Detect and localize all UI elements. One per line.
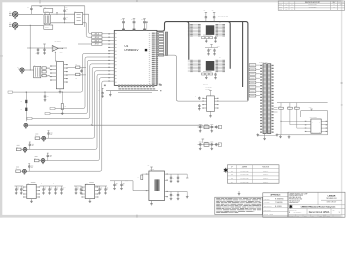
U1 right outer ladder wires (157, 33, 160, 35)
svg-text:C: C (53, 183, 54, 185)
U1 inner pin number specks right (149, 32, 150, 34)
U9 left stubs (188, 59, 190, 61)
U1 ground bus (106, 90, 158, 92)
J6 ground (42, 161, 44, 164)
svg-text:www.linear.com: www.linear.com (289, 202, 298, 204)
cap rail CC (74, 185, 82, 187)
J4 resistor (35, 137, 40, 140)
resistor R9 (61, 92, 63, 103)
U4 out wire to bus (219, 100, 248, 102)
sheet border top band (0, 0, 343, 2)
mid cap B (214, 49, 216, 51)
svg-text:+3V: +3V (147, 165, 149, 167)
capacitor CA1 (20, 186, 22, 188)
rc row end box (218, 125, 221, 128)
amplifier U2 (56, 62, 63, 89)
svg-text:FILE: FILE (297, 215, 299, 217)
wire FL1 to AIN+ label (83, 13, 89, 15)
U8 left stubs (188, 24, 190, 26)
svg-text:U7: U7 (86, 182, 88, 184)
title fields (306, 208, 308, 214)
bus vertical to U9 (187, 22, 189, 60)
title block main box (288, 192, 345, 217)
svg-text:M. JONES: M. JONES (275, 206, 282, 208)
svg-text:+3.3V: +3.3V (217, 46, 220, 48)
J2 ground (14, 27, 16, 30)
net label AIN-A (92, 36, 102, 39)
svg-text:SIZE DWG NO: SIZE DWG NO (289, 210, 297, 212)
mid cap rail (205, 47, 218, 49)
eeprom ground B (288, 134, 290, 137)
C5 ground (44, 52, 46, 53)
svg-text:R10: R10 (279, 105, 282, 107)
svg-text:+3V: +3V (203, 10, 205, 12)
pullup resistor R11 (289, 103, 291, 108)
J9 right wires (274, 106, 278, 108)
svg-text:ECO: ECO (279, 9, 282, 11)
capacitor CA0 (15, 186, 17, 188)
U1 bottom right dot (160, 90, 161, 91)
title block approvals box (263, 193, 288, 217)
wire common-mode riser (29, 25, 31, 70)
capacitor CD1 (105, 186, 107, 188)
capacitor CB0 (43, 186, 45, 188)
U8 lower resistors (202, 37, 205, 39)
U1 right edge pad column (156, 33, 159, 34)
oscillator Y1 body (149, 171, 165, 201)
Y1 top stub (151, 167, 153, 171)
rc cap A (199, 125, 201, 126)
U1 ground bus second line (118, 92, 152, 94)
border zone tick left (0, 55, 3, 58)
osc cap A (170, 174, 172, 176)
svg-text:JP3: JP3 (231, 178, 233, 180)
svg-text:+3.3V: +3.3V (308, 107, 311, 109)
corner pad (159, 84, 161, 86)
J9 pin number specks right (270, 64, 273, 66)
J9 left bar stripes (264, 64, 266, 66)
U5 right pins (321, 120, 327, 122)
C4 ground (37, 52, 39, 53)
rc resistor (204, 125, 209, 128)
notes ground mark (238, 191, 240, 192)
U1 decoupling cap C7 (102, 87, 104, 89)
border zone tick top A (40, 0, 41, 3)
U9 right inner pads (216, 59, 219, 62)
U1 right long pad bar (165, 32, 167, 56)
svg-text:LINEAR: LINEAR (328, 195, 336, 198)
connector J4 (42, 136, 46, 140)
jumper table star (224, 168, 228, 173)
Y1 bottom stub (151, 201, 153, 203)
svg-text:Demo Circuit 1250A: Demo Circuit 1250A (309, 211, 330, 214)
R12 drop wire (296, 109, 298, 128)
svg-text:+3V: +3V (120, 19, 122, 21)
svg-text:ECO: ECO (279, 6, 282, 8)
capacitor CC1 (80, 186, 82, 188)
notes text box (215, 197, 263, 214)
U1 right outer ladder upper (159, 33, 164, 35)
capacitor CB1 (49, 186, 51, 188)
rc cap C (215, 143, 217, 144)
cap rail CB (40, 185, 63, 187)
rc row end box (218, 143, 221, 146)
J9 right bar stripes (268, 64, 270, 66)
IC U1 LTM9001 body (114, 30, 157, 85)
U4 left pins (203, 97, 207, 99)
J2 stub marks (9, 23, 12, 25)
IC U8 body (206, 25, 215, 35)
net label AIN+A (92, 33, 102, 36)
U4 left cap A (198, 97, 200, 98)
svg-text:REV: REV (333, 210, 336, 212)
resistor R2 below T1 (44, 25, 53, 29)
R10 drop wire (280, 109, 282, 135)
pullup resistor R10 (280, 103, 282, 108)
sheet border bottom band (0, 215, 343, 218)
svg-text:R: R (138, 177, 139, 179)
rc row2 top stub (202, 139, 204, 143)
bus vertical right (242, 22, 244, 87)
wire top rail (31, 5, 84, 7)
resistor R7 (76, 66, 80, 69)
U9 lower cap (215, 73, 217, 74)
svg-text:DOC. CTRL: DOC. CTRL (264, 210, 271, 212)
rc cap A (199, 143, 201, 144)
U4 bottom ground (210, 111, 212, 114)
cap rail CA (15, 185, 24, 187)
rc row1 top stub (202, 124, 204, 126)
rc resistor (204, 143, 209, 146)
svg-text:1-10: 1-10 (285, 9, 288, 11)
osc cap C (170, 192, 172, 194)
R11 drop wire (289, 109, 291, 125)
capacitor CE0 (114, 181, 116, 183)
svg-text:T. NGUYEN: T. NGUYEN (275, 202, 282, 204)
U8 right inner pads (216, 23, 219, 26)
J7 capacitor (28, 165, 30, 166)
svg-text:+3.3V: +3.3V (64, 6, 67, 8)
connector J1 (12, 12, 18, 17)
op-amp U3 (52, 45, 58, 51)
U8 left inner pads (198, 23, 201, 26)
U1 left pins (108, 33, 114, 35)
J8 ground (25, 126, 27, 129)
J5 capacitor (29, 143, 31, 144)
resistor R8 (76, 73, 80, 76)
J9 left pad ladder (260, 65, 262, 66)
notes text (216, 197, 220, 200)
IC U5 body (311, 119, 321, 133)
border zone tick top B (136, 0, 139, 2)
eeprom ground A (280, 134, 282, 136)
U8 lower ground (205, 39, 207, 40)
capacitor CE1 (121, 181, 123, 183)
U1 bottom left end pad (104, 85, 106, 87)
svg-text:JP4: JP4 (231, 182, 233, 184)
svg-text:+3V: +3V (211, 10, 213, 12)
J5 resistor (16, 148, 21, 151)
net label AIN-B (92, 43, 102, 46)
J7 resistor (16, 170, 21, 173)
Y1 left resistor (142, 173, 146, 175)
net stub label C (27, 117, 32, 119)
border zone tick bottom A (136, 215, 139, 218)
U1 bottom right end pad (160, 84, 162, 86)
J9 net label boxes (249, 64, 256, 67)
wire long rail to clock network (28, 124, 203, 126)
U2 ground (59, 89, 61, 91)
svg-text:1-10: 1-10 (285, 6, 288, 8)
svg-text:U5 24LC025: U5 24LC025 (310, 117, 317, 119)
U9 left outer pads (190, 59, 193, 62)
U4 right pins (214, 97, 218, 99)
U9 lower resistors (202, 73, 205, 75)
svg-text:J9 EDGE-CON: J9 EDGE-CON (259, 61, 268, 63)
osc right rail drop A (186, 174, 188, 178)
J1 ground (14, 16, 16, 19)
svg-text:C: C (173, 195, 174, 197)
J9 pin number specks left (261, 64, 264, 66)
wire J1 to T1 (18, 13, 43, 15)
U3 output wire (58, 47, 62, 49)
svg-text:C: C (65, 187, 66, 189)
svg-text:R2 50: R2 50 (45, 27, 49, 29)
U9 pin wires (193, 59, 198, 61)
title bottom row (288, 213, 345, 215)
U8 lower cap (215, 36, 217, 37)
rc row rail y127.0 (198, 126, 220, 128)
connector J6 (41, 159, 45, 163)
sheet border left band (0, 0, 2, 218)
C5 flag (44, 44, 46, 48)
svg-text:C: C (195, 96, 196, 98)
svg-text:DEMO CIRCUIT: DEMO CIRCUIT (327, 201, 337, 203)
svg-text:C: C (173, 177, 174, 179)
connector J2 (12, 23, 18, 29)
J4 capacitor (48, 132, 50, 133)
J9 bottom rail (257, 134, 277, 136)
U4 left cap B (198, 104, 200, 105)
svg-text:MDM: MDM (340, 4, 343, 6)
regulator U6 ground (31, 199, 33, 200)
connector J7 (23, 169, 27, 173)
osc right rail drop B (186, 192, 188, 196)
capacitor C8 (44, 92, 46, 94)
transformer T1 (44, 15, 50, 24)
svg-text:TECHNOLOGY: TECHNOLOGY (326, 198, 337, 200)
svg-text:R C R C: R C R C (203, 84, 208, 86)
resistor R4 (42, 67, 46, 69)
border zone tick right A (341, 83, 343, 84)
svg-text:R6: R6 (47, 76, 49, 78)
regulator U7 body (85, 184, 94, 198)
U9 lower ground (205, 75, 207, 76)
Y1 right pins (165, 173, 168, 175)
capacitor C2 (64, 9, 66, 10)
J9 bottom grounds (264, 134, 266, 138)
ferrite bead L3 (25, 108, 27, 111)
capacitor CC0 (75, 186, 77, 188)
cap rail CD (95, 185, 107, 187)
mid cap A (208, 49, 210, 51)
ferrite bead L2 (25, 100, 27, 103)
svg-text:CLKBUF: CLKBUF (205, 88, 210, 90)
osc out rail B (168, 191, 188, 193)
IC U9 body (206, 61, 215, 71)
capacitor C5 (44, 48, 46, 49)
rc row rail y144.6 (198, 144, 220, 146)
svg-text:+3V: +3V (131, 19, 133, 21)
net stub label A (50, 107, 55, 109)
svg-text:JP: JP (231, 167, 233, 169)
svg-text:VCM: VCM (60, 52, 63, 54)
capacitor C1 (30, 7, 32, 8)
U4 top stub (210, 91, 212, 96)
osc cap B (177, 174, 179, 176)
svg-text:FUNCTION: FUNCTION (262, 167, 269, 169)
svg-text:PCB DES.: PCB DES. (264, 199, 270, 201)
connector J5 (23, 148, 27, 152)
svg-text:CODE: CODE (319, 215, 322, 217)
regulator U6 body (27, 184, 36, 198)
pullup resistor R12 (296, 103, 298, 108)
wire left caps to Y1 (125, 180, 133, 182)
svg-text:C8: C8 (47, 96, 49, 98)
svg-text:REVISION HISTORY: REVISION HISTORY (305, 2, 321, 4)
U2 left pins (50, 65, 56, 67)
J6 resistor (34, 159, 39, 162)
Y1 crystal hatch (155, 179, 160, 191)
wire vref rail (27, 47, 67, 49)
svg-text:JP1: JP1 (231, 170, 233, 172)
svg-text:IN PROCESS: IN PROCESS (309, 6, 317, 8)
top bus wire (157, 22, 248, 101)
U1 ground symbol (109, 91, 111, 94)
capacitor C3 (64, 17, 66, 19)
U8 left outer pads (190, 23, 193, 26)
J3 ground (21, 71, 23, 74)
eeprom loop (277, 111, 328, 135)
wire T1 out- (51, 22, 75, 24)
U2 vcm drop (54, 52, 56, 61)
net label AIN+B (92, 39, 102, 42)
svg-text:PHONE 408 432 1900: PHONE 408 432 1900 (289, 199, 302, 201)
J9 body left bar (263, 64, 266, 134)
svg-text:JP2: JP2 (231, 174, 233, 176)
wire FL1 to AIN- label (83, 22, 87, 24)
svg-text:R1 50: R1 50 (45, 11, 49, 13)
J9 body right bar (268, 64, 271, 134)
J9 right pad ladder (272, 65, 274, 66)
svg-text:SIZE B: SIZE B (327, 215, 331, 217)
capacitor CB3 (61, 186, 63, 188)
svg-text:ECO: ECO (279, 4, 282, 6)
svg-text:SHT 1: SHT 1 (304, 215, 307, 217)
svg-text:R. SIMMONS: R. SIMMONS (275, 199, 283, 201)
rail flag mid (40, 5, 42, 7)
title band (288, 204, 345, 206)
regulator U7 ground (89, 199, 91, 200)
jumper table (227, 165, 279, 183)
eeprom top rail (277, 102, 328, 104)
svg-text:1-10: 1-10 (285, 4, 288, 6)
resistor R5 (42, 71, 46, 73)
svg-text:PRODUCTION: PRODUCTION (308, 4, 317, 6)
junction stub (56, 13, 58, 14)
osc out rail A (168, 173, 188, 175)
bus vertical mid (228, 22, 230, 69)
J6 capacitor (47, 154, 49, 155)
U1 top pin stubs (123, 22, 125, 30)
filter FL1 (75, 12, 83, 24)
U8 right outer pads (222, 23, 225, 26)
svg-text:Y1 OSC: Y1 OSC (150, 169, 155, 171)
svg-text:U4 NC7SZ: U4 NC7SZ (205, 87, 211, 89)
clock buffer U4 body (207, 96, 215, 112)
svg-text:C: C (41, 183, 42, 185)
wire J2 to T1 (18, 24, 43, 26)
J7 ground (23, 172, 25, 175)
border zone tick right B (341, 104, 343, 107)
wire to net label AIN-B (78, 43, 92, 45)
rail y92 label (8, 91, 13, 93)
U1 bottom pad row (118, 85, 120, 88)
rc cap B (211, 125, 213, 126)
svg-text:U3 LT6203: U3 LT6203 (55, 41, 61, 43)
U9 left inner pads (198, 59, 201, 62)
U1 bottom pad row 2 (119, 88, 122, 89)
wire J3 to T2 (24, 69, 33, 71)
J4 ground (43, 139, 45, 142)
mid power flag (211, 45, 213, 48)
svg-text:REV: REV (333, 2, 336, 4)
U2 right pins (64, 64, 68, 66)
U5 left pins (305, 120, 311, 122)
wire U1 clkout (158, 55, 203, 101)
Y1 left pins (146, 173, 149, 175)
U1 top pin stub extra (146, 22, 148, 30)
svg-text:LTM9001V: LTM9001V (125, 48, 139, 52)
revision history table (278, 1, 344, 10)
J1 stub marks (9, 12, 12, 14)
cap pair right of U7 rail (110, 180, 128, 182)
U8 pin wires (193, 24, 198, 26)
svg-text:JUMPER: JUMPER (242, 167, 247, 169)
border zone tick bottom B (323, 215, 326, 218)
net stub label B (45, 112, 50, 114)
rc cap B (211, 143, 213, 144)
capacitor CD0 (99, 186, 101, 188)
wire U2 outputs (83, 66, 86, 68)
wire T1 out+ (51, 13, 75, 15)
connector J3 (20, 68, 24, 72)
U9 right outer pads (222, 59, 225, 62)
wire bus from U1 left pins (13, 54, 109, 93)
J5 ground (24, 150, 26, 153)
U1 inner pin number specks left (115, 33, 117, 35)
U1 right inner pad column (152, 33, 155, 34)
resistor R6 (42, 74, 46, 76)
wire top rail drop (84, 6, 86, 27)
transformer T2 (34, 66, 41, 77)
sheet border right line (341, 0, 342, 218)
connector J8 (24, 123, 28, 127)
rc cap C (215, 125, 217, 126)
capacitor C6 (81, 69, 83, 70)
osc cap D (177, 192, 179, 194)
svg-text:R12: R12 (295, 105, 298, 107)
